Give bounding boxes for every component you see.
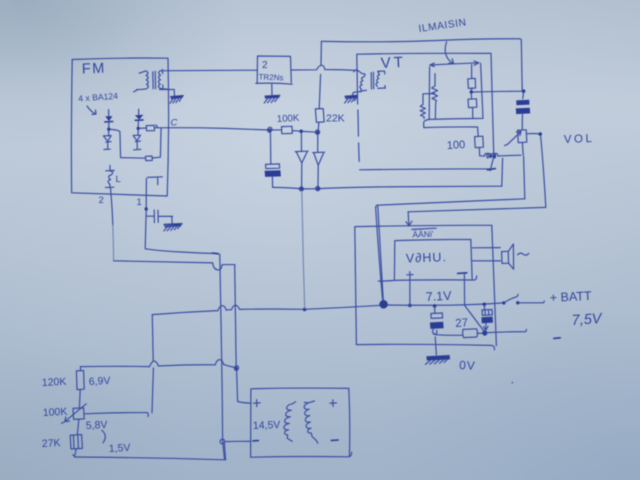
junction dot cap right on bus [483,303,487,307]
svg-text:7,5V: 7,5V [571,311,603,329]
svg-text:TR2Ns: TR2Ns [258,73,283,83]
wire Ra to Rb [423,94,435,105]
diagonal minus to 27 node [465,306,484,332]
bus blob junction [380,301,387,308]
node at 100K left dot [267,127,272,132]
svg-text:2: 2 [99,195,104,206]
svg-text:2: 2 [262,60,268,71]
speaker [502,244,514,269]
ground GND5 [426,355,450,361]
battery plus left [253,400,260,407]
svg-text:V∂HU.: V∂HU. [406,250,448,265]
wire to battery box minus [225,440,251,442]
resistor 27 [463,329,478,338]
wire 22K top to ILMAISIN vertical [319,41,321,108]
line B [377,199,525,205]
junction ring D1 [299,187,303,191]
vertical wiper node down [541,135,546,207]
svg-text:100K: 100K [43,406,68,419]
wire 27 to right node [477,332,483,334]
wire terminal1 to junction [145,196,147,208]
svg-text:+ BATT: + BATT [549,289,592,305]
lower rail to minus [487,329,527,332]
vertical D1 node down to bus [302,191,305,308]
diode D2 [313,134,325,187]
svg-text:14,5V: 14,5V [253,419,281,432]
pot wiper to node [527,133,539,135]
junction hook at VT left edge [354,70,358,72]
resistor Rd box [468,94,477,119]
svg-text:27: 27 [455,317,469,330]
wire FM to 2TRANS [169,69,257,72]
ILMAISIN arrow into VT [445,42,453,64]
bus left end corner down [152,315,153,413]
ILMAISIN right corner down [520,39,523,90]
line A right end up to coil node [501,158,504,186]
speaker wires [472,248,500,261]
VT inner box [429,61,483,119]
wire2 continues to battery box plus [237,370,251,403]
junction dot terminal1 [145,207,148,210]
audio outer box [355,225,497,350]
cap C5 plates [482,310,492,316]
wire mid from Rc/Rd node to cap [473,90,522,93]
coil L in FM bottom [106,166,115,188]
svg-text:1,5V: 1,5V [109,442,131,455]
wire C4 to 27 [434,334,462,336]
audio in arrow [406,212,412,226]
bus hop over vertical x222 [218,306,226,311]
cap C4 plates [431,313,443,318]
switch lever [505,294,518,302]
ground GND2 stem [271,85,273,96]
coil wire with inductor loops [480,153,521,158]
battery minus right [331,439,338,441]
battery box [251,388,352,457]
ground GND2 [265,96,279,98]
resistor 120K [76,371,84,390]
wire to 22K node [303,130,316,133]
junction dot wire2/120K wire [234,366,238,371]
svg-text:0V: 0V [459,358,476,373]
line A wire [273,186,502,189]
ground GND4 [164,224,182,227]
wiper node dot [538,132,542,136]
lead pot to 27K [77,419,78,434]
battery minus left [253,440,259,442]
battery transformer right coil [304,401,318,443]
wire terminal1 junction down then right [145,211,217,254]
wire trimmer up to C line [152,128,161,158]
vertical from wire2 down to 368 [235,265,237,368]
trimmer cap upper [146,125,157,131]
svg-text:6,9V: 6,9V [89,375,111,388]
VAHV box [378,239,476,281]
junction ring minus wire [220,439,225,444]
transformer T2 in VT [358,71,366,92]
svg-text:1: 1 [137,197,142,208]
inner box exit bottom left [424,119,479,136]
hop of 120K wire over bus vertical [150,361,159,367]
junction dot plus on bus [408,304,412,308]
potentiometer VOL [518,130,527,143]
node B dot [137,127,140,130]
varactor pair A top stub [108,110,110,117]
switch dot left [502,301,505,304]
lead 27K to bottom wire [73,449,76,456]
resistor 100 [475,136,484,155]
ground GND3 [345,96,357,99]
bus through audio box [385,303,502,305]
junction dot Rc/Rd [470,90,473,93]
wire T1 bottom to ground [160,90,175,96]
svg-text:100: 100 [447,139,466,152]
minus terminal VAHV [458,272,467,275]
varactor DB2 [133,130,141,150]
wire node A to lower trimmer [110,129,145,158]
capacitor C big right [522,93,525,99]
line C to audio arrow [408,207,546,211]
VT bottom right corner mark [487,169,495,170]
diode D1 [295,133,308,187]
wire 2TRANS to VT with hop [291,65,356,70]
capacitor C2 below 100K node [269,132,271,164]
node C wire out of FM [157,128,269,130]
junction dot cap top [522,89,526,93]
svg-text:120K: 120K [42,376,67,389]
resistor 22K [315,109,324,131]
line B corner down to blob [376,205,384,302]
wire node B to trimmer upper [140,127,146,129]
node A dot [107,128,110,131]
ILMAISIN top wire [321,39,519,42]
svg-text:22K: 22K [326,113,345,125]
speaker tilde [518,253,529,255]
cap C5 lead down arrow [483,323,488,330]
bus hop over vertical x236 [231,305,239,310]
junction dots coil wire [489,155,492,158]
wire terminal2 horizontal [114,261,213,263]
wire 120K top [80,365,234,371]
bus junction dot diode branch [303,308,307,312]
capacitor C3 [147,210,173,223]
svg-text:5,8V: 5,8V [86,419,108,432]
corner blob wire1 [213,252,219,255]
svg-text:7.1V: 7.1V [425,289,452,304]
wire terminal2 down [111,188,113,225]
resistor 27K [70,435,82,449]
junction ring 22K node [315,130,319,134]
ground GND1 [171,96,183,99]
long bus wire left section [152,309,302,315]
cap C4 lead [434,307,436,313]
hop 120K wire over vertical x222 [215,360,224,365]
switch dot right [516,301,519,304]
VAHV minus lead down [463,274,465,305]
svg-text:VOL: VOL [564,133,595,146]
svg-text:ÄÄNi': ÄÄNi' [412,229,434,240]
battery transformer left coil [284,402,296,442]
bracket arc [102,430,106,443]
varactor DA1 [105,116,112,121]
right node blob [482,330,487,335]
bus right section to blob [307,305,384,309]
corner bottom wire up to minus wire [224,443,225,460]
minus batt dash [554,337,560,340]
transformer T1 in FM [134,71,149,92]
2 TRANS box [256,56,292,84]
vertical from wire1 down to bottom [220,254,225,459]
varactor DA2 [103,130,111,149]
junction dot cap left branch [433,304,437,308]
varactor DB1 [135,115,144,120]
plus terminal VAHV [407,272,413,278]
AANI overline [412,228,436,229]
VT box [357,53,494,171]
ground GND5 stem [435,337,436,355]
svg-text:27K: 27K [42,437,61,450]
resistor Rb zigzag [420,104,425,118]
wire T2 to ground [353,91,361,95]
svg-text:VT: VT [380,54,406,72]
arrow to varactors [87,106,96,115]
pot arrow [505,131,521,145]
svg-text:C: C [171,118,178,129]
cap C5 lead [483,305,485,309]
resistor 100K [272,126,301,133]
svg-text:FM: FM [82,61,106,78]
VAHV plus lead down [409,278,411,304]
pot bottom lead [521,143,524,156]
svg-text:100K: 100K [277,113,301,125]
wiper wire [85,413,149,417]
resistor Rc box [468,65,476,91]
paper speck [511,382,513,384]
terminal 1 bar in FM [146,177,162,196]
junction ring D2 [316,186,320,190]
pot bottom vertical to line B [524,156,525,198]
cap C4 bottom ring [433,329,437,335]
FM block box [71,58,168,196]
battery plus right [330,400,337,407]
bottom wire [75,457,226,460]
resistor Ra zigzag [432,74,438,119]
trimmer cap lower [146,156,153,161]
junction dot after 100K [299,130,303,134]
varactor pair B top stub [138,109,140,115]
svg-text:L: L [116,174,121,185]
ground GND4 stem [171,216,173,223]
hop under vertical [213,263,235,270]
wire switch to batt [519,301,544,303]
lead 120K to pot [78,390,81,408]
pot 100K arrow [61,404,86,424]
pot 100K box [73,408,84,420]
